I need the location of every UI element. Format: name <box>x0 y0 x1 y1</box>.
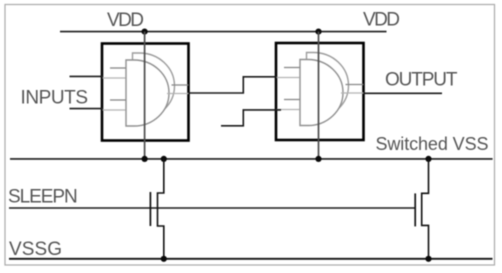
gate U2 front AND shape <box>300 60 343 126</box>
transistor Q1 gate bar <box>149 192 151 226</box>
wire VDD rail <box>60 31 387 33</box>
wire U1 output to U2 input <box>189 77 277 93</box>
svg-text:SLEEPN: SLEEPN <box>8 187 78 208</box>
node junction Q2 drain on Switched VSS <box>425 156 431 162</box>
gate U1 output stub front <box>167 93 189 95</box>
svg-text:VDD: VDD <box>107 10 144 31</box>
wire input 1 to U1 <box>70 75 104 77</box>
wire input 2 to U1 <box>70 108 104 110</box>
gate U1 back AND shape <box>133 53 175 119</box>
gate U1 input stub pin 2 <box>103 77 126 79</box>
svg-text:VDD: VDD <box>363 10 400 31</box>
gate U2 input stub pin 3 <box>284 99 300 101</box>
node junction U1 bottom on Switched VSS <box>142 156 148 162</box>
gate U2 input stub pin 1 <box>284 67 300 69</box>
wire Switched VSS rail <box>10 158 493 160</box>
transistor Q1 drain/channel/source path <box>158 159 164 259</box>
wire VDD drop through U1 to Switched VSS <box>144 32 146 159</box>
node VDD junction right <box>315 29 321 35</box>
gate U1 input stub pin 3 <box>110 99 126 101</box>
gate U1 front AND shape <box>126 60 169 126</box>
svg-text:VSSG: VSSG <box>9 239 62 260</box>
transistor Q2 gate bar <box>414 193 416 226</box>
transistor Q1 (left sleep NMOS) <box>150 159 163 259</box>
gate U1 input stub pin 4 <box>103 109 126 111</box>
gate U2 cell box <box>276 43 364 140</box>
gate U2 input stub pin 4 <box>277 109 300 111</box>
svg-text:INPUTS: INPUTS <box>21 87 89 108</box>
gate U2 output stub front <box>341 92 364 94</box>
wire second input stub to U2 <box>221 110 281 126</box>
transistor Q2 (right sleep NMOS) <box>415 159 428 259</box>
node junction Q1 source on VSSG <box>161 256 167 262</box>
wire VSSG rail <box>9 258 493 260</box>
gate U2 output stub back <box>346 84 364 86</box>
svg-text:Switched VSS: Switched VSS <box>376 134 489 154</box>
node junction Q2 source on VSSG <box>425 256 431 262</box>
gate U1 output stub back <box>172 84 189 86</box>
gate U1 input stub pin 1 <box>110 67 126 69</box>
wire VDD drop through U2 to Switched VSS <box>318 32 320 159</box>
gate U2 back AND shape <box>307 53 349 119</box>
transistor Q2 drain/channel/source path <box>422 159 429 259</box>
svg-text:OUTPUT: OUTPUT <box>385 70 458 91</box>
node VDD junction left <box>142 29 148 35</box>
gate U1 (left AND-gate cell) <box>102 44 189 141</box>
node junction U2 bottom on Switched VSS <box>315 156 321 162</box>
wire SLEEPN rail <box>9 207 415 209</box>
gate U1 cell box <box>102 44 189 141</box>
gate U2 (right AND-gate cell) <box>276 43 364 140</box>
node junction Q1 drain on Switched VSS <box>161 156 167 162</box>
gate U2 input stub pin 2 <box>277 77 300 79</box>
wire OUTPUT from U2 <box>364 92 443 94</box>
